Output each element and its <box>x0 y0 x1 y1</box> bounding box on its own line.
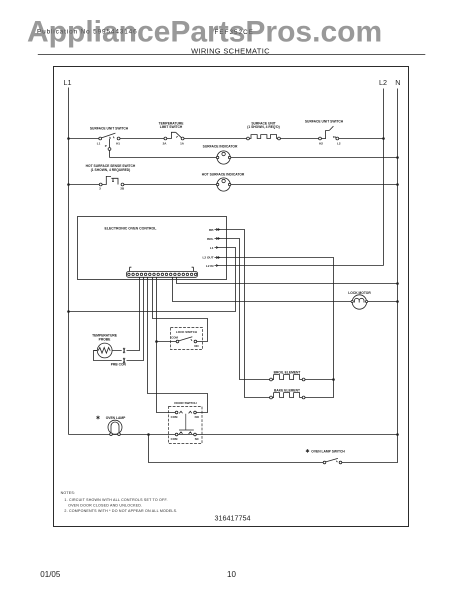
svg-text:SURFACE INDICATOR: SURFACE INDICATOR <box>203 145 238 149</box>
svg-text:LIMIT SWITCH: LIMIT SWITCH <box>160 125 183 129</box>
svg-text:(1 SHOWN, 4 REQUIRED): (1 SHOWN, 4 REQUIRED) <box>91 168 131 172</box>
junction lamp rung to lamp switch <box>147 433 150 436</box>
lock switch S3 <box>171 335 199 347</box>
door switch upper contacts COM-NO <box>171 411 200 419</box>
temperature probe RT1 <box>94 343 113 358</box>
svg-text:P: P <box>105 144 107 148</box>
svg-text:(1 SHOWN, 4 REQ'D): (1 SHOWN, 4 REQ'D) <box>247 125 279 129</box>
junction L1-rung1 <box>67 137 70 140</box>
svg-text:L1: L1 <box>64 78 72 87</box>
svg-text:PRB CON: PRB CON <box>111 363 127 367</box>
lock switch dashed box <box>171 328 203 350</box>
svg-text:BRL: BRL <box>207 237 213 241</box>
junction N-rung2 <box>396 183 399 186</box>
junction N-lock rung A <box>396 282 399 285</box>
svg-text:01/05: 01/05 <box>40 570 61 579</box>
notes block <box>61 491 178 513</box>
svg-text:H1: H1 <box>116 141 120 145</box>
svg-text:LOCK SWITCH: LOCK SWITCH <box>176 330 197 334</box>
svg-text:PROBE: PROBE <box>99 337 112 341</box>
broil element <box>270 375 334 381</box>
EOC pin connector ticks <box>216 229 219 267</box>
svg-text:1. CIRCUIT SHOWN WITH ALL CON: 1. CIRCUIT SHOWN WITH ALL CONTROLS SET T… <box>64 498 167 502</box>
svg-text:BROIL ELEMENT: BROIL ELEMENT <box>274 371 301 375</box>
door switch link bar <box>179 414 194 430</box>
svg-text:OVEN DOOR CLOSED AND UNLOCKED.: OVEN DOOR CLOSED AND UNLOCKED. <box>68 504 142 508</box>
wire lock COM stub <box>157 341 177 343</box>
wire L2 IN from L2 rail <box>215 265 384 267</box>
svg-text:L1: L1 <box>97 141 101 145</box>
svg-text:SURFACE UNIT SWITCH: SURFACE UNIT SWITCH <box>90 127 129 131</box>
svg-text:NO: NO <box>195 415 200 419</box>
svg-text:COM: COM <box>171 437 178 441</box>
wire BB to bake element <box>215 230 270 398</box>
svg-text:BAKE ELEMENT: BAKE ELEMENT <box>274 389 300 393</box>
svg-text:BB: BB <box>209 228 214 232</box>
door switch dashed box <box>169 407 203 444</box>
schematic border frame <box>54 67 409 527</box>
electronic oven control box U1 <box>78 217 227 280</box>
svg-text:2A: 2A <box>163 141 168 145</box>
svg-text:SURFACE UNIT SWITCH: SURFACE UNIT SWITCH <box>305 120 344 124</box>
svg-text:HOT SURFACE INDICATOR: HOT SURFACE INDICATOR <box>202 173 245 177</box>
svg-text:2B: 2B <box>120 187 125 191</box>
wire rung2 <box>69 184 398 186</box>
svg-text:316417754: 316417754 <box>215 514 251 523</box>
junction L1-rung2 <box>67 183 70 186</box>
temperature limit switch <box>163 132 185 145</box>
probe connector arcs bottom lead <box>123 358 125 363</box>
wire connector to door switch NO <box>148 278 208 413</box>
hot surface sense switch <box>99 176 125 190</box>
header publication text <box>37 29 138 36</box>
svg-text:1A: 1A <box>180 141 185 145</box>
wire connector to lock switch COM and door COM <box>157 278 176 413</box>
svg-text:ELECTRONIC OVEN CONTROL: ELECTRONIC OVEN CONTROL <box>105 227 158 231</box>
wire surface indicator rung <box>110 157 398 159</box>
svg-text:10: 10 <box>227 570 236 579</box>
junction N-surface indicator rung <box>396 156 399 159</box>
svg-text:L1: L1 <box>210 246 214 250</box>
wire oven lamp rung <box>69 434 398 436</box>
svg-text:AppliancePartsPros.com: AppliancePartsPros.com <box>27 16 382 49</box>
junction L1-EOC L1 feed <box>67 310 70 313</box>
svg-text:L2 IN: L2 IN <box>206 264 214 268</box>
wire N rail <box>342 89 398 463</box>
wire L1 feed to EOC <box>69 248 236 312</box>
hot surface indicator lamp <box>216 178 230 191</box>
svg-text:NC: NC <box>195 437 200 441</box>
junction lock switch COM tee <box>155 340 158 343</box>
wire L2 OUT to elements <box>215 258 334 398</box>
wire connector to lock switch NO <box>153 278 208 342</box>
svg-text:OVEN LAMP: OVEN LAMP <box>106 416 126 420</box>
surface unit switch S2 <box>319 126 341 145</box>
bake element <box>270 393 305 399</box>
surface unit element <box>247 135 281 140</box>
svg-text:2. COMPONENTS WITH * DO NOT: 2. COMPONENTS WITH * DO NOT APPEAR ON AL… <box>64 509 177 513</box>
door switch lower contacts COM-NC <box>171 432 200 441</box>
oven lamp switch S4 <box>323 458 342 463</box>
oven lamp switch star mark <box>306 449 309 453</box>
junction N-lock motor rung <box>396 300 399 303</box>
surface unit switch pilot terminal P <box>105 139 111 158</box>
svg-text:COM: COM <box>171 415 178 419</box>
title WIRING SCHEMATIC <box>191 47 270 56</box>
wire lamp rung to lamp switch rung <box>149 435 324 463</box>
svg-text:L2: L2 <box>379 78 387 87</box>
wire L1 rail <box>68 88 70 435</box>
oven lamp star mark <box>96 416 99 420</box>
header underline <box>38 54 426 56</box>
probe connector arcs top lead <box>123 348 125 353</box>
lock motor M1 <box>351 295 368 309</box>
oven lamp DS1 <box>108 420 122 435</box>
surface indicator lamp <box>216 151 230 164</box>
svg-text:H2: H2 <box>319 141 323 145</box>
svg-text:N: N <box>395 78 400 87</box>
svg-text:L2: L2 <box>337 141 341 145</box>
svg-text:NOTES:: NOTES: <box>61 491 76 495</box>
header model text <box>215 29 254 36</box>
junction broil right <box>332 378 335 381</box>
wire connector to probe bottom lead <box>94 278 144 361</box>
svg-text:OVEN LAMP SWITCH: OVEN LAMP SWITCH <box>311 449 345 453</box>
wire connector to lock rung A <box>177 278 398 284</box>
surface unit switch S1 <box>97 133 121 145</box>
wire connector to probe top lead <box>112 278 139 351</box>
EOC connector strip pins <box>128 273 197 275</box>
svg-text:L2 OUT: L2 OUT <box>202 256 213 260</box>
EOC connector strip P1 <box>127 267 198 277</box>
wire BRL to broil element <box>215 239 270 380</box>
svg-text:LOCK MOTOR: LOCK MOTOR <box>348 291 371 295</box>
svg-text:DOOR SWITCH: DOOR SWITCH <box>174 401 197 405</box>
wire connector to lock motor rung <box>173 278 398 302</box>
svg-text:NO: NO <box>194 344 199 348</box>
svg-text:COM: COM <box>171 335 178 339</box>
svg-text:3: 3 <box>99 187 101 191</box>
junction N-oven lamp rung <box>396 433 399 436</box>
junction L2-rung1 <box>382 137 385 140</box>
wire L2 rail <box>383 89 385 266</box>
wire rung1 segments <box>69 138 384 140</box>
